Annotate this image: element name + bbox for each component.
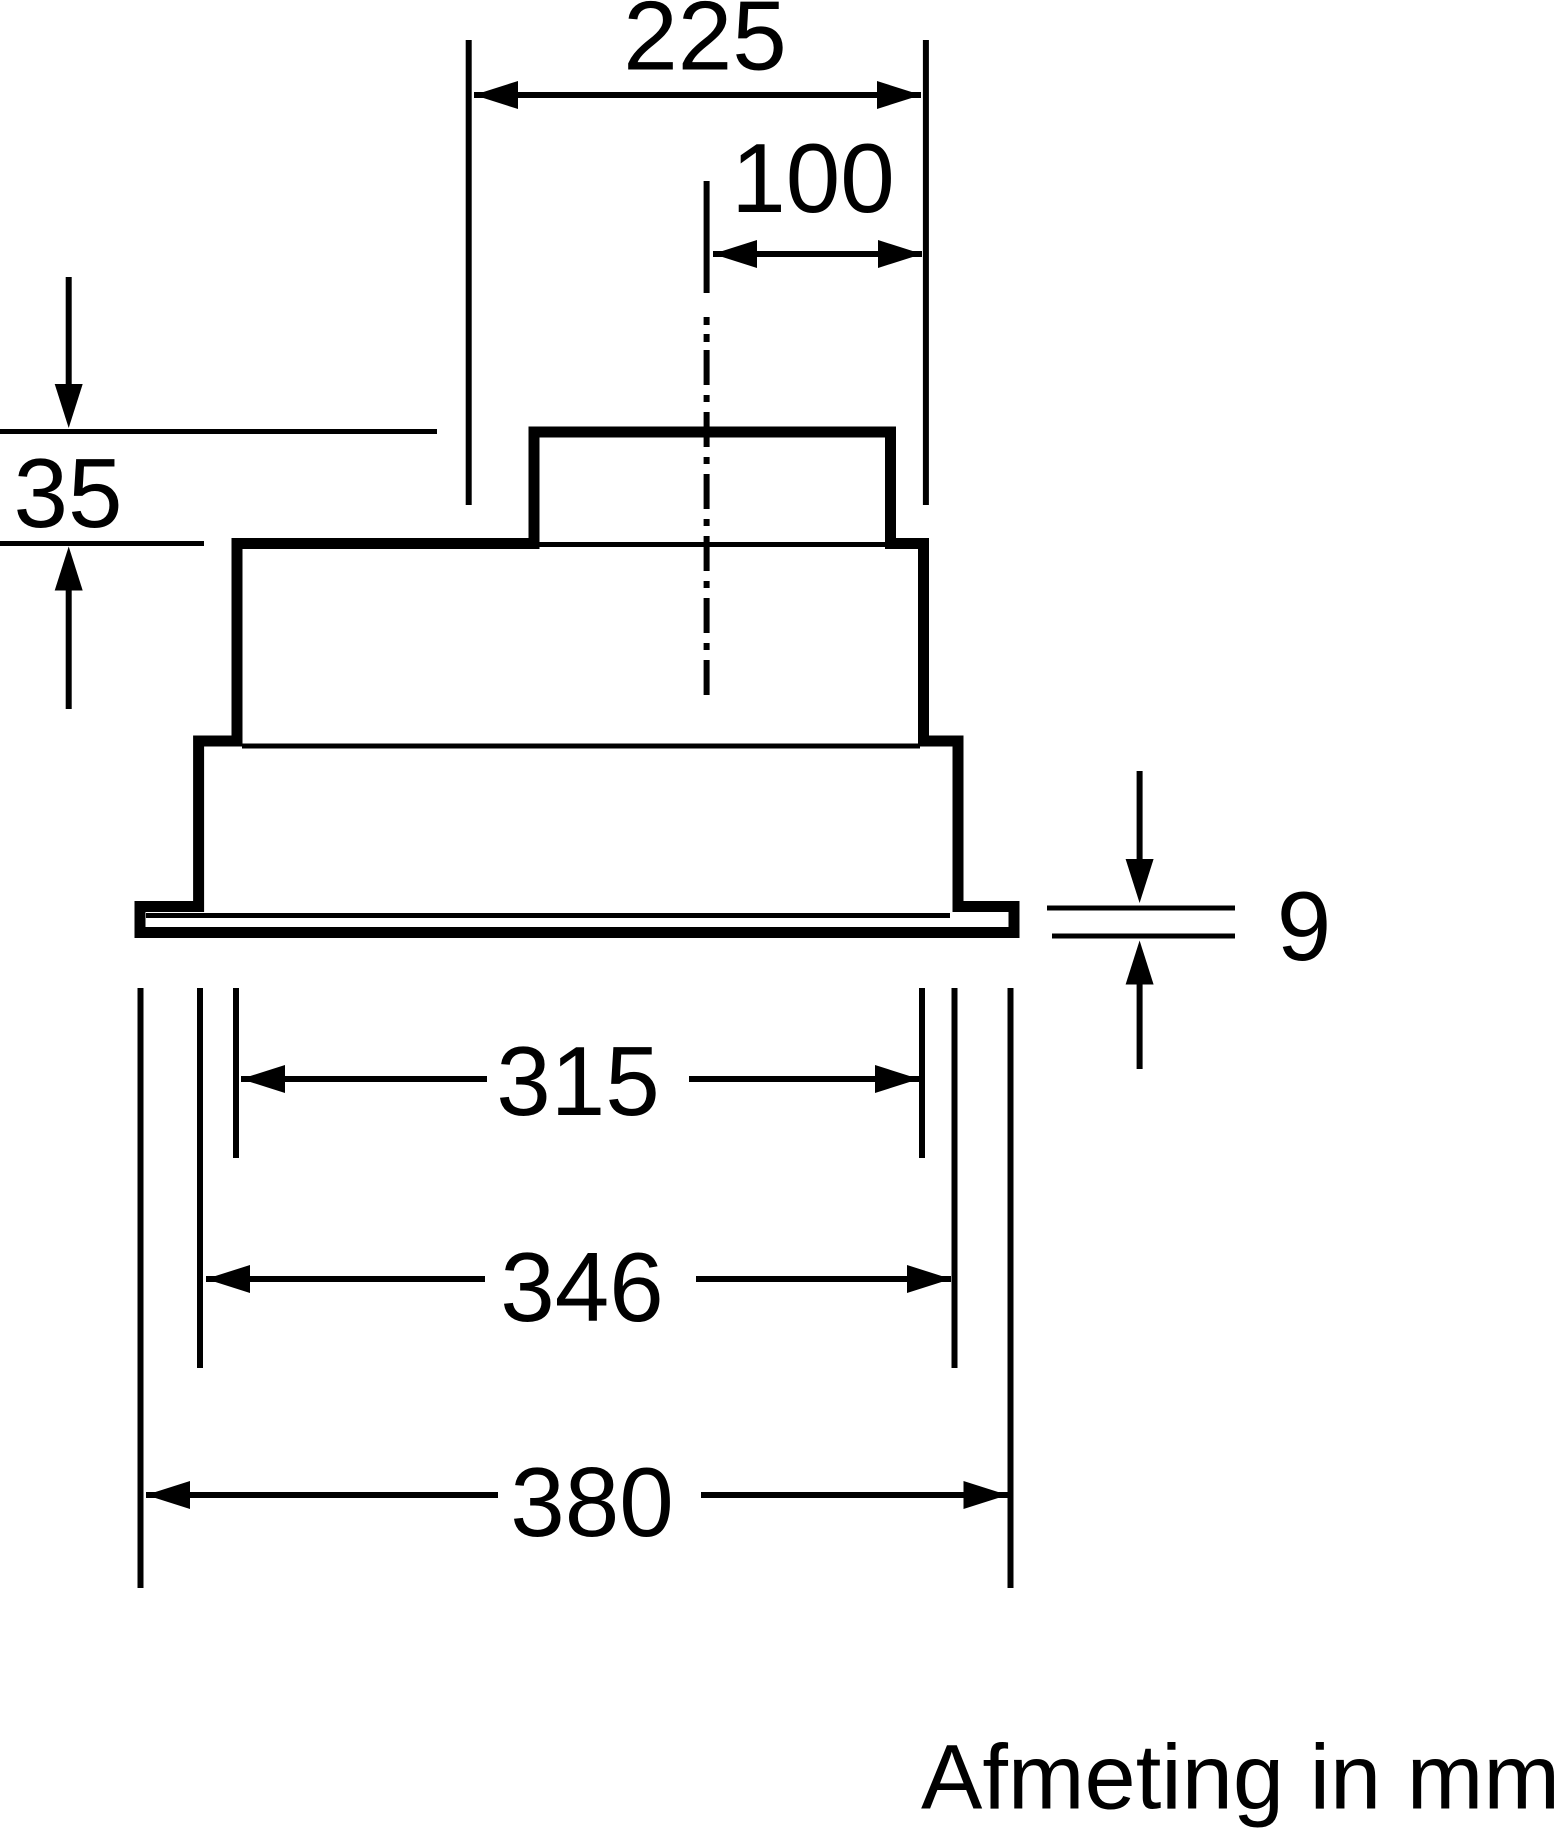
- centerline tick above duct: [704, 181, 710, 293]
- bottom extension line flange-right (380): [1008, 988, 1014, 1588]
- 9 down-arrow shaft: [1137, 771, 1143, 861]
- centerline dot 1: [704, 317, 710, 325]
- lower box top edge (thin): [242, 744, 920, 749]
- svg-text:100: 100: [731, 123, 895, 233]
- dimension line 315 right segment: [689, 1076, 919, 1082]
- flange inner top line (thin): [146, 913, 950, 918]
- 9 down-arrowhead: [1126, 859, 1154, 903]
- extension line 35-bottom (hood top level): [0, 541, 204, 546]
- dimension line 380 left segment: [146, 1492, 498, 1498]
- svg-text:Afmeting in mm: Afmeting in mm: [921, 1727, 1560, 1829]
- bottom extension line flange-left (380): [138, 988, 144, 1588]
- upper box top edge hidden under duct (thin): [534, 542, 891, 547]
- svg-text:9: 9: [1277, 871, 1332, 981]
- svg-text:346: 346: [500, 1232, 664, 1342]
- bottom extension line upper-box-left (315): [233, 988, 239, 1158]
- 35 down-arrow shaft: [66, 277, 72, 386]
- arrowhead left of 225: [474, 81, 518, 109]
- extension line 35-top (duct top level): [0, 429, 437, 434]
- dimension line 315 left segment: [241, 1076, 487, 1082]
- 9-dimension lower extension line: [1052, 934, 1235, 939]
- 9 up-arrowhead: [1126, 941, 1154, 985]
- svg-text:315: 315: [496, 1026, 660, 1136]
- arrowhead right of 315: [875, 1065, 919, 1093]
- 35 down-arrowhead: [55, 384, 83, 428]
- bottom extension line upper-box-right (315): [919, 988, 925, 1158]
- arrowhead right of 100: [878, 240, 922, 268]
- arrowhead right of 225: [877, 81, 921, 109]
- arrowhead left of 315: [241, 1065, 285, 1093]
- dimension line 346 left segment: [206, 1276, 485, 1282]
- svg-text:380: 380: [510, 1447, 674, 1557]
- 9-dimension upper extension line: [1047, 906, 1235, 911]
- arrowhead left of 346: [206, 1265, 250, 1293]
- arrowhead left of 100: [713, 240, 757, 268]
- dimension line 225: [474, 92, 921, 98]
- arrowhead right of 346: [907, 1265, 951, 1293]
- arrowhead right of 380: [964, 1481, 1008, 1509]
- svg-text:225: 225: [623, 0, 787, 91]
- centerline dash-dot through duct: [704, 350, 710, 702]
- dimension line 380 right segment: [701, 1492, 1008, 1498]
- dimension line 100: [713, 251, 922, 257]
- svg-text:35: 35: [13, 438, 122, 548]
- extension line right of 225/100 dimensions: [923, 40, 929, 505]
- 35 up-arrow shaft: [66, 589, 72, 709]
- bottom extension line lower-box-right (346): [952, 988, 958, 1368]
- dimension line 346 right segment: [696, 1276, 951, 1282]
- centerline dot 2: [704, 334, 710, 342]
- 35 up-arrowhead: [55, 547, 83, 591]
- hood body outline (duct, upper box, lower box, bottom flange): [140, 432, 1014, 933]
- bottom extension line lower-box-left (346): [197, 988, 203, 1368]
- arrowhead left of 380: [146, 1481, 190, 1509]
- 9 up-arrow shaft: [1137, 983, 1143, 1069]
- extension line left of 225 dimension: [466, 40, 472, 505]
